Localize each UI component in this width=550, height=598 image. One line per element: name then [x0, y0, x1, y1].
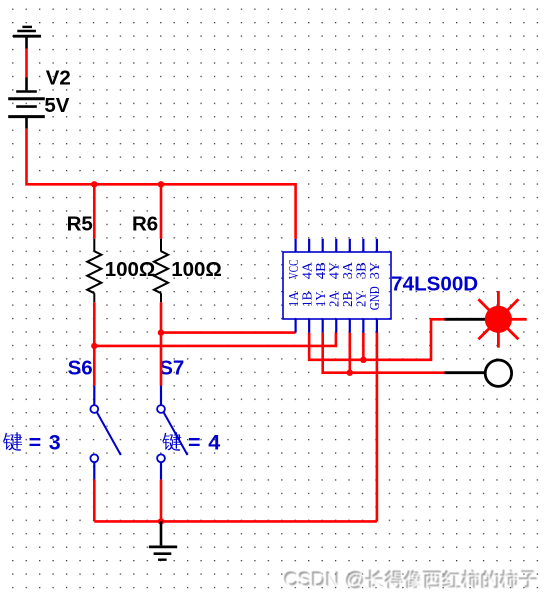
svg-text:=: =: [188, 431, 201, 455]
svg-text:4: 4: [208, 431, 220, 455]
svg-text:100Ω: 100Ω: [105, 258, 156, 281]
svg-text:74LS00D: 74LS00D: [391, 273, 478, 296]
svg-text:R5: R5: [67, 212, 93, 235]
svg-text:=: =: [29, 431, 42, 455]
svg-text:5V: 5V: [44, 94, 69, 117]
svg-text:V2: V2: [46, 66, 71, 89]
svg-text:100Ω: 100Ω: [171, 258, 222, 281]
svg-text:3Y: 3Y: [367, 262, 382, 279]
svg-text:S7: S7: [159, 357, 184, 380]
svg-text:S6: S6: [68, 357, 93, 380]
svg-text:GND: GND: [367, 286, 382, 310]
svg-text:R6: R6: [132, 212, 158, 235]
svg-text:CSDN @: CSDN @: [285, 570, 366, 592]
svg-text:3: 3: [49, 431, 61, 455]
